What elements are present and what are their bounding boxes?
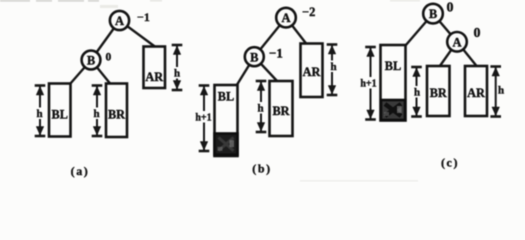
inserted node X box (b) <box>215 134 238 155</box>
label h of BL (a) <box>36 108 44 121</box>
svg-text:h+1: h+1 <box>360 79 376 90</box>
wire edge A-AR (a) <box>120 21 156 48</box>
subtree BR (b) <box>270 81 293 136</box>
scan noise bottom right <box>300 180 418 181</box>
svg-text:A: A <box>115 14 124 28</box>
label h+1 of BL (b) <box>195 111 212 124</box>
svg-text:A: A <box>452 35 461 49</box>
svg-text:h+1: h+1 <box>195 113 211 124</box>
height arrow h of AR (c) <box>490 67 501 117</box>
svg-text:−1: −1 <box>137 10 150 24</box>
svg-text:B: B <box>429 7 437 21</box>
label h of BR (c) <box>413 86 421 99</box>
node A (c) <box>447 32 467 52</box>
inserted node X box (c) <box>381 100 405 120</box>
svg-text:AR: AR <box>467 86 485 100</box>
svg-text:B: B <box>250 50 258 64</box>
wire edge A-BR (c) <box>440 42 458 67</box>
subtree BR (c) <box>427 66 450 116</box>
svg-text:−2: −2 <box>302 5 315 19</box>
svg-text:BL: BL <box>52 108 68 122</box>
height arrow h of BR (c) <box>411 67 422 117</box>
wire edge A-AR (c) <box>457 42 477 67</box>
label h of BR (a) <box>93 108 101 121</box>
height arrow h+1 of BL (c) <box>365 47 376 120</box>
svg-text:AR: AR <box>145 70 163 84</box>
wire edge B-BR (b) <box>254 57 278 82</box>
node B (c) <box>423 4 443 24</box>
label h of AR (c) <box>497 84 505 97</box>
svg-text:BR: BR <box>430 86 447 100</box>
svg-text:h: h <box>257 103 263 115</box>
svg-text:−1: −1 <box>269 46 283 61</box>
node B (a) <box>82 51 101 70</box>
svg-text:BR: BR <box>272 104 289 118</box>
svg-text:BL: BL <box>218 90 234 104</box>
subtree AR (b) <box>301 44 323 98</box>
wire edge B-A (c) <box>433 14 457 42</box>
svg-text:(c): (c) <box>441 156 459 170</box>
height arrow h of BR (b) <box>256 81 267 132</box>
scan noise top edge <box>0 0 420 8</box>
height arrow h of AR (a) <box>172 45 183 90</box>
subtree BL (a) <box>49 84 71 137</box>
height arrow h of BR (a) <box>92 86 103 137</box>
label h of AR (b) <box>330 61 338 74</box>
svg-text:0: 0 <box>106 52 112 64</box>
svg-text:A: A <box>281 11 290 25</box>
wire edge A-AR (b) <box>286 18 307 44</box>
label h+1 of BL (c) <box>360 77 377 90</box>
wire edge B-BR (a) <box>91 60 111 84</box>
label h of BR (b) <box>257 102 265 115</box>
subtree BL (b) <box>215 85 238 156</box>
svg-text:h: h <box>36 108 42 120</box>
svg-text:h: h <box>414 87 420 99</box>
wire edge B-BL (b) <box>237 57 255 86</box>
height arrow h+1 of BL (b) <box>199 86 210 152</box>
subtree AR (a) <box>144 47 166 89</box>
svg-text:h: h <box>93 108 99 120</box>
wire edge A-B (a) <box>91 21 120 61</box>
svg-text:BR: BR <box>108 108 125 122</box>
height arrow h of AR (b) <box>327 45 338 96</box>
label h of AR (a) <box>173 67 181 80</box>
svg-text:h: h <box>498 85 504 97</box>
svg-text:AR: AR <box>303 65 321 79</box>
svg-text:h: h <box>174 68 180 80</box>
svg-text:BL: BL <box>385 59 401 73</box>
svg-text:(a): (a) <box>71 164 90 178</box>
svg-text:h: h <box>330 61 336 73</box>
subtree BL (c) <box>381 45 406 121</box>
subtree AR (c) <box>465 66 487 116</box>
svg-text:(b): (b) <box>252 162 271 176</box>
wire edge B-BL (c) <box>406 14 434 46</box>
node A (a) <box>110 11 129 30</box>
svg-text:0: 0 <box>447 1 454 16</box>
wire edge B-BL (a) <box>70 60 91 84</box>
svg-text:0: 0 <box>474 26 481 41</box>
height arrow h of BL (a) <box>35 86 46 137</box>
node A (b) <box>276 8 296 28</box>
wire edge A-B (b) <box>254 18 286 57</box>
svg-text:B: B <box>87 54 95 68</box>
subtree BR (a) <box>106 84 127 138</box>
node B (b) <box>245 47 264 66</box>
